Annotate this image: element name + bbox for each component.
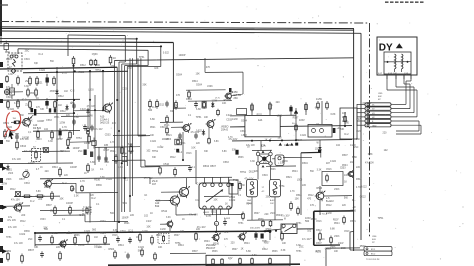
- svg-text:2SC: 2SC: [341, 247, 346, 250]
- svg-text:0.1: 0.1: [192, 166, 196, 169]
- warning triangle DY: [396, 43, 403, 48]
- capacitor C74: [254, 233, 257, 237]
- svg-text:TP51: TP51: [5, 250, 11, 253]
- wire rail y140r: [232, 140, 352, 141]
- svg-text:R536: R536: [50, 91, 56, 93]
- svg-text:560: 560: [138, 250, 143, 253]
- resistor R41: [37, 130, 39, 132]
- wire dark horiz y211: [314, 210, 354, 212]
- resistor R99: [242, 212, 244, 214]
- svg-text:1000P: 1000P: [37, 120, 44, 123]
- svg-text:R544: R544: [292, 171, 298, 173]
- wire rail y142: [70, 141, 95, 144]
- svg-text:0.1: 0.1: [125, 179, 129, 182]
- capacitor C41r: [289, 107, 292, 112]
- resistor R101: [251, 103, 253, 105]
- wire ground bus left drop: [34, 233, 36, 246]
- svg-text:IC-2: IC-2: [178, 151, 183, 154]
- svg-text:10K: 10K: [191, 146, 196, 149]
- resistor R13b: [35, 88, 37, 90]
- svg-text:6.8K: 6.8K: [104, 161, 109, 164]
- svg-text:1/2W: 1/2W: [59, 122, 65, 125]
- wire vertical x57: [56, 67, 58, 163]
- transistor Q18: [349, 172, 354, 177]
- svg-text:C533: C533: [340, 168, 346, 170]
- svg-text:D2 B22: D2 B22: [33, 127, 42, 130]
- svg-text:10K: 10K: [6, 88, 11, 91]
- svg-text:102: 102: [146, 149, 151, 152]
- wire top dash near DY: [385, 1, 425, 3]
- svg-text:C533: C533: [105, 133, 111, 136]
- wire rail y163: [0, 162, 73, 165]
- wire left edge stub 6: [0, 178, 3, 183]
- svg-text:TP51: TP51: [180, 143, 186, 145]
- wire rail y151: [22, 150, 70, 153]
- svg-text:0.022: 0.022: [106, 178, 113, 181]
- wire rail y113: [28, 112, 73, 115]
- svg-text:6.8K: 6.8K: [28, 119, 33, 122]
- svg-text:IC-2: IC-2: [38, 53, 43, 56]
- red annotation circle: [5, 111, 21, 136]
- resistor R12b: [27, 88, 29, 90]
- capacitor C76: [41, 251, 43, 253]
- svg-text:1K: 1K: [36, 97, 39, 100]
- svg-text:0.022: 0.022: [229, 199, 236, 202]
- wire mid rail drop x114: [114, 60, 116, 222]
- svg-text:R544: R544: [128, 151, 134, 153]
- svg-text:220: 220: [276, 101, 281, 104]
- svg-text:102: 102: [128, 67, 133, 70]
- svg-text:D512: D512: [316, 229, 322, 232]
- svg-text:2SC: 2SC: [266, 196, 271, 199]
- warning triangle A2: [286, 143, 289, 146]
- wire left edge arrow 3: [2, 249, 7, 254]
- svg-text:C533: C533: [223, 161, 229, 164]
- wire rail y244: [35, 243, 110, 246]
- svg-text:TP51: TP51: [152, 150, 159, 153]
- junction dot 22: [281, 140, 283, 142]
- svg-text:4.7: 4.7: [36, 169, 40, 171]
- svg-text:C516: C516: [163, 163, 169, 166]
- svg-text:3.3K: 3.3K: [48, 140, 53, 143]
- svg-text:102: 102: [94, 237, 99, 239]
- svg-text:0.022: 0.022: [8, 108, 15, 111]
- svg-text:L503: L503: [241, 134, 247, 137]
- trimmer VR1: [92, 141, 96, 146]
- wire Q14 base: [161, 191, 179, 193]
- svg-text:R507: R507: [192, 250, 198, 253]
- diode D31: [203, 130, 205, 132]
- rectifier D42 bridge: [256, 152, 259, 155]
- svg-text:D512: D512: [249, 170, 255, 173]
- svg-text:470: 470: [206, 66, 211, 69]
- svg-text:33K: 33K: [34, 246, 39, 249]
- resistor R59: [87, 163, 89, 165]
- wire chassis boundary chain line vertical: [369, 23, 371, 237]
- wire bus 5 horizontal dark: [0, 41, 173, 44]
- svg-text:IC-2: IC-2: [70, 90, 75, 93]
- svg-text:1K: 1K: [136, 237, 139, 239]
- wire chassis boundary chain line horizontal: [0, 22, 370, 24]
- wire left edge stub 9: [0, 218, 3, 222]
- capacitor C51: [16, 134, 18, 136]
- svg-text:0.022: 0.022: [52, 233, 58, 235]
- svg-text:6.8K: 6.8K: [246, 250, 251, 253]
- wire R25 drop: [87, 134, 89, 149]
- component X1: [44, 148, 49, 153]
- svg-text:TO FOCUS PK: TO FOCUS PK: [366, 259, 380, 261]
- svg-text:0.1: 0.1: [100, 168, 104, 171]
- junction dot 21: [182, 159, 184, 161]
- wire rail y253: [170, 252, 206, 254]
- junction dot 8: [121, 162, 123, 164]
- svg-text:A50: A50: [234, 91, 239, 94]
- wire Q15 emitter down: [175, 205, 177, 215]
- svg-text:33K: 33K: [204, 151, 209, 153]
- wire bus 3 horizontal: [68, 34, 125, 37]
- svg-text:12A: 12A: [258, 119, 263, 122]
- svg-text:L503: L503: [207, 85, 213, 88]
- wire left tick x230: [229, 88, 232, 92]
- svg-text:C516: C516: [326, 169, 332, 171]
- bridge box B41: [245, 116, 280, 137]
- svg-text:TP51: TP51: [175, 242, 181, 245]
- resistor R43: [69, 130, 71, 132]
- junction dots on y72: [74, 71, 76, 73]
- svg-text:470: 470: [307, 198, 312, 201]
- svg-text:6.8K: 6.8K: [368, 153, 373, 156]
- svg-text:0.022: 0.022: [150, 140, 157, 143]
- resistor R112: [343, 216, 345, 218]
- svg-text:47u 10V: 47u 10V: [281, 214, 290, 217]
- resistor R22: [17, 99, 19, 101]
- svg-text:1/2W: 1/2W: [146, 221, 152, 223]
- svg-text:560: 560: [92, 228, 97, 231]
- svg-text:R521: R521: [150, 127, 156, 129]
- svg-text:10K: 10K: [156, 200, 161, 203]
- svg-text:33K: 33K: [280, 162, 285, 165]
- svg-text:D512: D512: [262, 248, 268, 251]
- fuse F01: [4, 44, 9, 50]
- resistor R73: [87, 234, 89, 236]
- svg-text:CN5: CN5: [378, 93, 383, 95]
- svg-text:220: 220: [44, 186, 49, 189]
- svg-text:D504: D504: [176, 74, 182, 77]
- svg-text:6.8K: 6.8K: [222, 151, 227, 153]
- svg-text:2SC: 2SC: [25, 49, 30, 52]
- wire dark vertical x314: [313, 211, 315, 245]
- resistor R111: [297, 207, 299, 209]
- filter box F41: [308, 125, 332, 138]
- svg-text:D504: D504: [311, 218, 317, 221]
- svg-text:C516: C516: [24, 58, 30, 61]
- wire left edge stub 8: [0, 205, 3, 209]
- svg-text:10K: 10K: [334, 251, 339, 253]
- svg-text:1000P: 1000P: [344, 174, 351, 177]
- svg-text:0.022: 0.022: [361, 186, 368, 189]
- wire vertical x90 lower: [89, 193, 91, 223]
- wire bridge bottom leads: [257, 165, 259, 179]
- svg-text:220: 220: [45, 170, 50, 173]
- junction dot 3: [89, 99, 91, 101]
- svg-text:102: 102: [384, 149, 389, 152]
- resistor R56: [130, 144, 132, 146]
- svg-text:33K: 33K: [40, 108, 45, 111]
- resistor R95e: [208, 137, 210, 139]
- svg-text:2SC: 2SC: [354, 147, 359, 149]
- svg-text:47u 10V: 47u 10V: [189, 214, 198, 217]
- wire left edge stub 7: [0, 186, 3, 190]
- svg-text:TP51: TP51: [76, 137, 82, 140]
- svg-text:L503: L503: [277, 115, 283, 118]
- svg-text:TP51: TP51: [139, 56, 145, 59]
- resistor R64: [54, 206, 56, 208]
- wire Q14 collector up: [186, 178, 188, 187]
- svg-text:1000P: 1000P: [284, 144, 291, 147]
- svg-text:R507: R507: [10, 131, 16, 134]
- svg-text:R507: R507: [104, 149, 110, 152]
- resistor R15: [6, 75, 8, 77]
- svg-text:0.022: 0.022: [330, 160, 337, 163]
- svg-text:470: 470: [176, 94, 181, 97]
- capacitor C52: [98, 155, 100, 157]
- resistor R42: [51, 130, 53, 132]
- transistor Q12: [183, 125, 190, 132]
- svg-text:D512: D512: [170, 157, 176, 159]
- svg-text:603: 603: [372, 239, 376, 241]
- svg-text:C516: C516: [120, 230, 126, 233]
- svg-text:3.3K: 3.3K: [118, 166, 123, 169]
- resistor R68: [81, 185, 83, 186]
- svg-text:C533: C533: [122, 88, 128, 91]
- boxed resistor R95d: [175, 139, 182, 145]
- junction dot 20: [215, 231, 217, 233]
- wire CN602 to DY pin1: [391, 103, 406, 105]
- svg-text:47u 10V: 47u 10V: [59, 129, 68, 132]
- svg-text:10K: 10K: [196, 72, 201, 75]
- svg-text:220: 220: [96, 64, 101, 67]
- svg-text:D512: D512: [58, 95, 64, 98]
- svg-text:TP51: TP51: [296, 251, 302, 253]
- svg-text:33K: 33K: [110, 65, 115, 68]
- regulator box bottom: [206, 255, 290, 266]
- resistor R110: [290, 201, 292, 203]
- svg-text:560: 560: [148, 109, 153, 112]
- resistor R54: [88, 134, 90, 136]
- transistor Q7: [60, 241, 66, 247]
- svg-text:1/2W: 1/2W: [356, 119, 362, 121]
- svg-text:C516: C516: [316, 221, 322, 223]
- capacitor C72: [117, 236, 119, 238]
- resistor R24: [54, 100, 56, 102]
- svg-text:6.8K: 6.8K: [331, 113, 336, 116]
- svg-text:6.8K: 6.8K: [196, 108, 201, 111]
- svg-text:0A10 2S: 0A10 2S: [100, 122, 110, 125]
- junction dot 4: [56, 99, 58, 101]
- svg-text:0.022: 0.022: [211, 211, 218, 214]
- svg-text:R507: R507: [232, 249, 238, 251]
- warning triangle A1: [279, 143, 282, 146]
- svg-text:47u 10V: 47u 10V: [7, 219, 16, 222]
- wire D22 drop: [87, 113, 89, 127]
- svg-text:R507: R507: [316, 242, 322, 245]
- wire bus 4 drop: [136, 39, 138, 64]
- svg-text:1K: 1K: [344, 181, 347, 184]
- svg-text:17: 17: [262, 187, 265, 189]
- svg-text:0.022: 0.022: [80, 109, 86, 111]
- junction dot 24: [34, 232, 36, 234]
- svg-text:017: 017: [152, 183, 157, 186]
- resistor R90a: [114, 250, 116, 252]
- svg-text:L503: L503: [270, 213, 276, 215]
- svg-text:0.022: 0.022: [138, 246, 145, 249]
- svg-text:3.3K: 3.3K: [281, 249, 286, 252]
- svg-text:47u 10V: 47u 10V: [244, 177, 253, 180]
- resistor R82: [212, 258, 214, 259]
- resistor RZ1: [262, 220, 264, 221]
- svg-text:560: 560: [6, 141, 11, 143]
- svg-text:6.8K: 6.8K: [214, 141, 219, 143]
- resistor R88: [21, 254, 23, 256]
- svg-text:47u 10V: 47u 10V: [365, 161, 374, 164]
- svg-text:1000P: 1000P: [28, 162, 35, 165]
- wire vertical x106b: [105, 147, 107, 162]
- wire IC51 top pin leads: [204, 178, 206, 184]
- svg-text:4P: 4P: [378, 99, 381, 101]
- wire rail y135c: [113, 134, 146, 136]
- svg-text:102: 102: [350, 161, 355, 164]
- resistor R93: [156, 99, 158, 101]
- junction dot 11: [116, 231, 118, 233]
- resistor R52: [16, 140, 18, 142]
- varistor VA1: [4, 89, 9, 94]
- svg-text:C533: C533: [24, 182, 30, 185]
- svg-text:4C: 4C: [262, 191, 265, 193]
- svg-text:33K: 33K: [170, 111, 175, 113]
- resistor R57: [115, 154, 117, 156]
- svg-text:2P: 2P: [372, 242, 375, 244]
- svg-text:4.7K: 4.7K: [62, 72, 67, 75]
- svg-text:R544: R544: [118, 244, 124, 247]
- svg-text:D504: D504: [186, 98, 192, 101]
- damper module: [275, 155, 284, 166]
- wire rail y101: [188, 100, 232, 103]
- svg-text:33K: 33K: [34, 63, 39, 65]
- wire bridge top lead: [260, 141, 262, 151]
- svg-text:R507: R507: [210, 165, 216, 168]
- resistor R109: [326, 174, 328, 176]
- resistor R97: [174, 167, 176, 169]
- svg-text:D504: D504: [109, 248, 115, 251]
- svg-text:0.022: 0.022: [226, 115, 232, 117]
- resistor C31: [188, 90, 190, 92]
- wire ground bus y232: [35, 231, 270, 233]
- wire mid rail y58: [115, 58, 354, 61]
- resistor R71: [51, 235, 53, 237]
- svg-text:10K: 10K: [180, 230, 185, 233]
- resistor R90b: [141, 248, 143, 250]
- svg-text:220: 220: [130, 214, 135, 217]
- svg-text:GND: GND: [372, 125, 377, 127]
- diode D51: [7, 165, 9, 167]
- svg-text:1K: 1K: [241, 247, 244, 250]
- resistor R51: [4, 129, 6, 131]
- wire rail y214 below IC: [205, 213, 244, 215]
- svg-text:TP51: TP51: [6, 237, 12, 239]
- svg-text:1K: 1K: [247, 146, 250, 149]
- resistor R25: [87, 126, 89, 128]
- svg-text:2SC: 2SC: [28, 239, 33, 241]
- svg-text:L503: L503: [297, 178, 303, 181]
- capacitor C35: [195, 133, 197, 135]
- svg-text:L503: L503: [330, 246, 336, 249]
- terminal A below IC51: [214, 221, 218, 225]
- svg-text:1K: 1K: [265, 138, 268, 141]
- wire vertical x73: [73, 64, 75, 135]
- svg-text:220: 220: [231, 241, 236, 244]
- wire Q16 leads: [160, 223, 167, 225]
- wire vertical x90: [89, 72, 91, 128]
- junction dot 15: [295, 139, 297, 141]
- svg-text:1/2W: 1/2W: [338, 243, 344, 245]
- junction dot 10: [129, 195, 131, 197]
- svg-text:R521: R521: [315, 250, 321, 253]
- wire junction x270: [269, 231, 271, 240]
- svg-text:33K: 33K: [177, 138, 182, 141]
- svg-text:102: 102: [270, 203, 274, 205]
- svg-text:C516: C516: [6, 96, 12, 99]
- wire vertical x205: [204, 58, 206, 72]
- svg-text:50.: 50.: [292, 123, 295, 125]
- svg-text:C533: C533: [100, 221, 106, 223]
- wire zigzag y160: [112, 159, 145, 161]
- wire rail y89: [186, 89, 226, 91]
- junction dot 1: [56, 71, 58, 73]
- wire rail y131: [33, 130, 80, 133]
- svg-text:470: 470: [224, 239, 229, 241]
- junction dot 9: [124, 177, 126, 179]
- svg-text:10K: 10K: [59, 198, 64, 201]
- transistor Q8: [213, 235, 219, 241]
- svg-text:10K: 10K: [282, 243, 287, 245]
- svg-text:10K: 10K: [174, 104, 179, 107]
- svg-text:/II: /II: [284, 219, 286, 221]
- wire Q5 emitter run: [52, 182, 76, 184]
- resistor R31 circled: [11, 121, 14, 123]
- wire rail y147: [95, 146, 140, 149]
- svg-text:220: 220: [383, 131, 388, 134]
- svg-text:470: 470: [263, 161, 268, 164]
- diode D22: [87, 108, 89, 110]
- transistor Q11: [226, 93, 232, 99]
- wire CN603 left wire: [350, 249, 364, 251]
- wire top bus 2 vertical right: [360, 33, 362, 240]
- deflection yoke DY box: [377, 37, 417, 75]
- svg-text:1K: 1K: [144, 194, 147, 197]
- svg-text:R536: R536: [180, 195, 186, 198]
- relay switch box: [281, 224, 297, 234]
- capacitor C36: [189, 165, 191, 167]
- svg-text:102: 102: [315, 148, 320, 151]
- svg-text:10K: 10K: [295, 198, 300, 201]
- svg-text:D504: D504: [204, 241, 210, 243]
- svg-text:33K: 33K: [142, 83, 147, 86]
- svg-text:3.3K: 3.3K: [8, 73, 13, 76]
- wire posistor drops: [251, 197, 253, 220]
- resistor R94: [175, 100, 177, 102]
- transistor Q5: [45, 180, 52, 187]
- svg-text:107: 107: [326, 163, 331, 165]
